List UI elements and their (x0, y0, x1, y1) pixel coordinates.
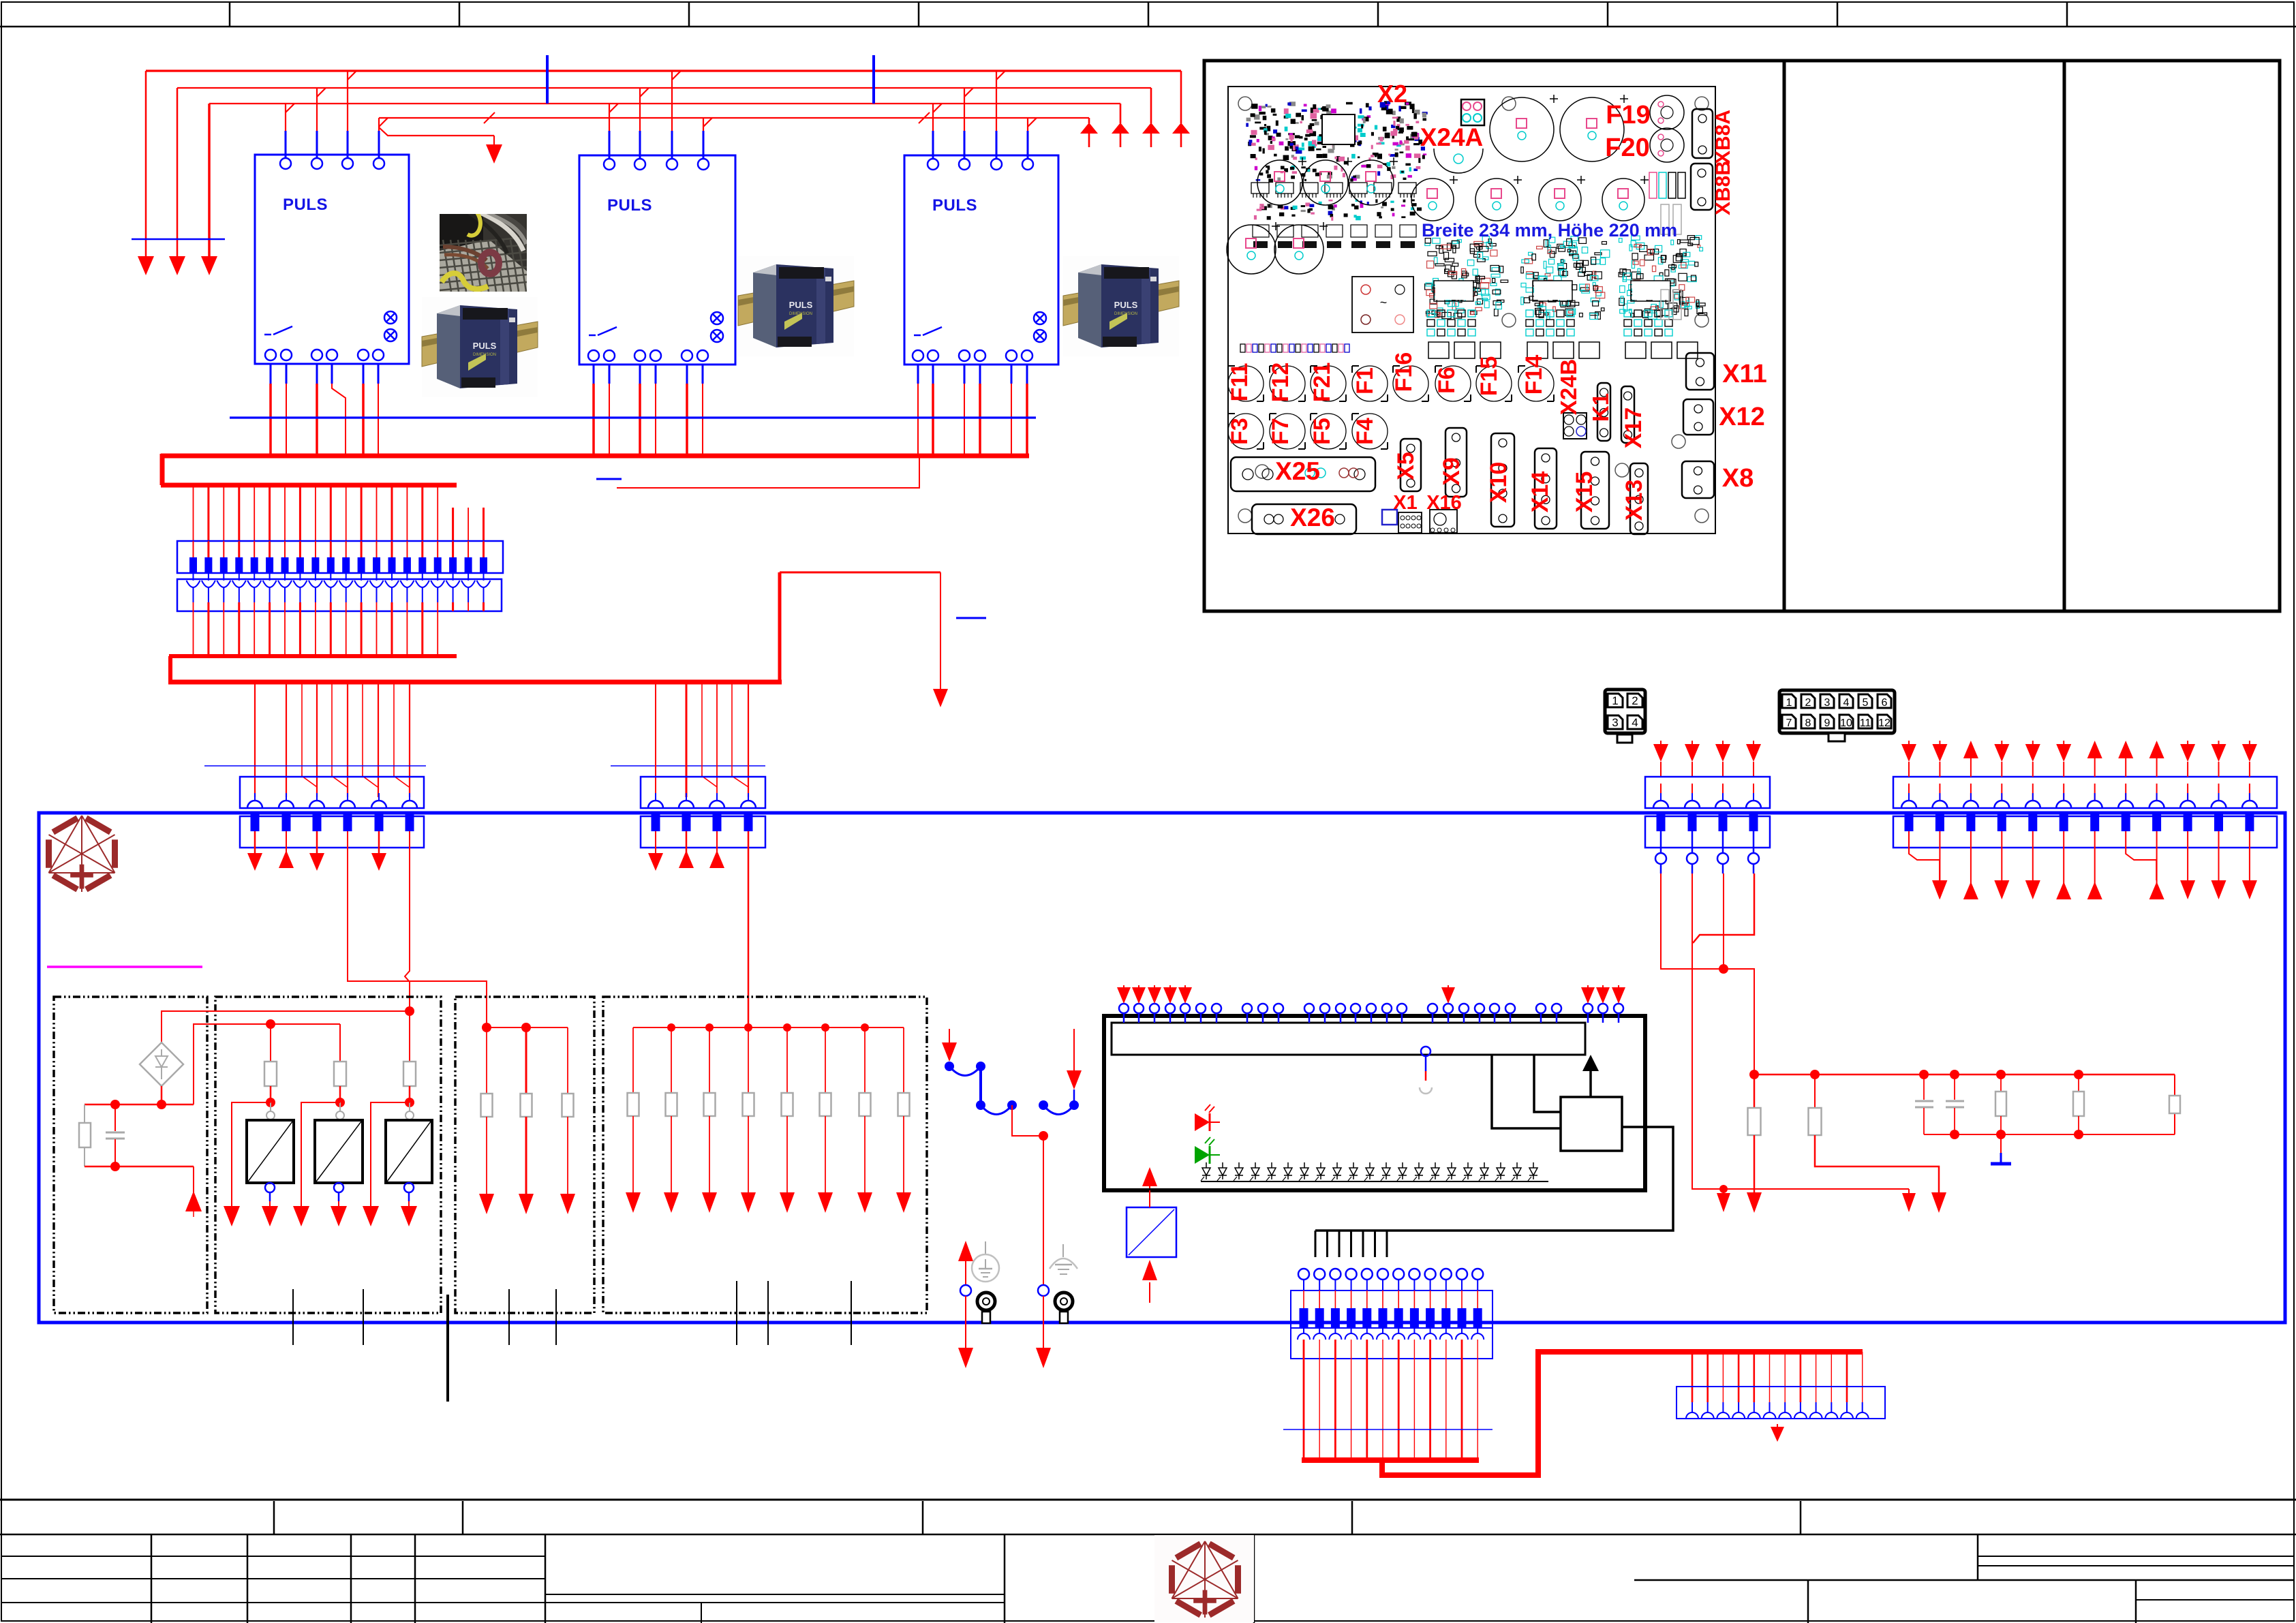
PCB small component rows (1240, 172, 1685, 352)
wires block E to network (1661, 874, 1916, 1212)
arrows into terminal block XF (1901, 741, 2257, 777)
svg-text:2: 2 (1805, 697, 1811, 709)
power supply G2 (PULS) (579, 155, 735, 365)
node 0V blue rail under PSUs (230, 416, 1036, 418)
feed arrow into arc chain (right) (1067, 1029, 1082, 1105)
DC/DC converter U1 (247, 1120, 294, 1183)
terminal block XH (1677, 1387, 1885, 1419)
svg-text:X17: X17 (1621, 407, 1647, 449)
incoming feed arrows (top right) (1080, 71, 1190, 147)
PCB rectifier block (1352, 277, 1413, 333)
fuse F-a (grey) (264, 1062, 277, 1086)
power supply G3 (PULS) (904, 155, 1058, 365)
wire box4 rail (633, 1023, 904, 1032)
wires bus2 to terminal block XC (255, 682, 410, 797)
PCB labels right side (1719, 360, 1767, 493)
svg-text:F14: F14 (1521, 355, 1547, 395)
wire box3 rail (482, 1023, 568, 1032)
PCB connector X24A footprint (1461, 99, 1484, 125)
capacitor C1 (grey) (106, 1104, 125, 1166)
arrows into controller inputs (1117, 985, 1625, 1004)
PCB fuses F19 F20 (round) (1650, 95, 1684, 162)
bus XG collector (thick red route) (1302, 1352, 1863, 1475)
svg-text:F12: F12 (1268, 362, 1294, 403)
svg-text:6: 6 (1882, 697, 1888, 709)
capacitor C-n1 (grey) (1915, 1075, 1933, 1134)
svg-text:XB8B: XB8B (1712, 161, 1734, 215)
svg-text:X10: X10 (1486, 462, 1512, 504)
photo of DIN-rail power supply (2) (738, 256, 854, 356)
hexagon logo (enclosure) (49, 816, 115, 892)
PCB fuse labels row2 (1227, 418, 1378, 445)
thin blue line below XG (1283, 1429, 1493, 1430)
wire box2 feed rail (from XC-6) (194, 1019, 340, 1104)
terminal block XG (bottom, straddling enclosure) (1291, 1269, 1493, 1460)
terminal block XC (240, 777, 424, 848)
svg-text:PULS: PULS (1114, 300, 1138, 310)
resistor R-n2 (grey) (2073, 1075, 2084, 1134)
svg-text:DIMENSION: DIMENSION (473, 353, 496, 357)
wire PE drop to lug 2 (1012, 1105, 1051, 1368)
wires from rails to PSU inputs (286, 71, 1037, 159)
svg-text:3: 3 (1612, 716, 1618, 729)
wire N return thin with blue dash (596, 458, 919, 488)
svg-text:X5: X5 (1393, 452, 1419, 480)
svg-text:F16: F16 (1391, 352, 1417, 392)
option marker magenta line (47, 965, 202, 968)
svg-text:X11: X11 (1722, 360, 1767, 388)
title block (0, 1500, 2296, 1623)
fuse group box3 with arrows (479, 1027, 575, 1214)
wire box1 top rail (162, 1006, 414, 1062)
controller input pins (blue circles) (1119, 1004, 1623, 1023)
svg-text:F1: F1 (1352, 367, 1378, 395)
svg-text:F21: F21 (1309, 362, 1335, 403)
PCB round fuse footprints row2 (1228, 414, 1388, 449)
capacitor C-n2 (grey) (1946, 1075, 1964, 1134)
power supply G1 (PULS) (255, 155, 409, 364)
dashed group box 4 (fuse distribution) (603, 997, 927, 1313)
wires bus to terminal block XH (1692, 1352, 1863, 1412)
controller module A1 (black box) (1104, 1016, 1645, 1190)
resistor R-n3 (grey) (2169, 1096, 2180, 1113)
svg-text:10: 10 (1840, 717, 1852, 729)
isolator blue box (DC/DC) (1127, 1190, 1176, 1257)
PCB big capacitors (1227, 95, 1649, 274)
fuse F-c (grey) (403, 1062, 416, 1086)
svg-text:F4: F4 (1352, 418, 1378, 445)
svg-text:8: 8 (1805, 717, 1811, 729)
connector plug 12-pin (1779, 690, 1895, 741)
svg-text:~: ~ (1380, 296, 1388, 309)
wire crossing ticks on rail4 (484, 112, 930, 123)
svg-text:XB8A: XB8A (1712, 110, 1734, 164)
svg-text:1: 1 (1786, 697, 1792, 709)
svg-text:F19: F19 (1606, 101, 1650, 129)
svg-text:X2: X2 (1377, 80, 1407, 108)
svg-text:F20: F20 (1605, 134, 1649, 162)
svg-text:X1: X1 (1393, 492, 1417, 514)
svg-text:X26: X26 (1290, 504, 1335, 531)
controller test point (1420, 1047, 1432, 1094)
svg-text:X12: X12 (1719, 403, 1765, 431)
page connector blue dashes (top) (547, 55, 874, 104)
svg-text:X16: X16 (1426, 492, 1462, 514)
connector plug 4-pin (1605, 690, 1645, 743)
svg-text:K1: K1 (1588, 393, 1613, 422)
svg-text:X8: X8 (1722, 464, 1754, 493)
diode bridge / suppressor diamond (140, 1042, 183, 1086)
terminal block XD (641, 777, 765, 848)
wire XC-6 to dashed box 2 feed (405, 831, 410, 1011)
bus 24V main (thick red) (161, 454, 1029, 485)
output thyristor row (1201, 1162, 1548, 1181)
svg-text:X14: X14 (1527, 472, 1553, 513)
PCB labels connectors rotated (1393, 359, 1647, 521)
dashed group box 2 (DC/DC converters) (215, 997, 441, 1313)
fuse F-b (grey) (334, 1062, 346, 1086)
wire XC-5 to dashed box 3 feed (348, 831, 487, 1027)
PCB fuse labels row1 (1227, 352, 1547, 403)
svg-text:PULS: PULS (789, 300, 813, 310)
svg-text:PULS: PULS (473, 341, 497, 351)
svg-text:X9: X9 (1439, 457, 1465, 486)
wire distribution rail (right network) (1749, 1070, 2175, 1139)
wire rail4 branch with down arrow (379, 127, 502, 164)
svg-text:X25: X25 (1275, 457, 1320, 485)
converter output terminals and arrows (262, 1183, 417, 1226)
wires bus2 to terminal block XD (656, 682, 748, 797)
svg-text:X13: X13 (1621, 480, 1647, 521)
PCB X24B connector small (1563, 413, 1587, 439)
svg-text:4: 4 (1843, 697, 1850, 709)
thin blue line above XC (204, 765, 426, 767)
svg-text:4: 4 (1632, 716, 1638, 729)
fuse group box4 with arrows (626, 1027, 911, 1213)
thin blue line above XD (611, 765, 765, 767)
fuse network F-n2 with route (1809, 1075, 1947, 1213)
PCB mounting holes (1238, 97, 1709, 523)
PCB round fuse footprints row1 (1228, 366, 1554, 401)
svg-text:F5: F5 (1309, 418, 1335, 445)
wire box1 mid rail (85, 1086, 194, 1109)
wire controller to connector comb (black) (1315, 1127, 1673, 1257)
svg-text:X24A: X24A (1420, 123, 1484, 151)
cable lug 1 (black ring) (977, 1293, 995, 1323)
DC/DC converter U3 (386, 1120, 432, 1183)
svg-text:1: 1 (1612, 694, 1618, 707)
wire riser to supply arrow (780, 572, 986, 707)
ground symbol (blue) under network (1991, 1134, 2011, 1164)
terminal strip X1 (disconnect terminals) (177, 541, 503, 573)
svg-text:F6: F6 (1434, 367, 1460, 394)
terminal block XE (1645, 777, 1770, 874)
documentation frame (black box right) (1204, 61, 2280, 611)
svg-text:Breite 234 mm, Höhe 220 mm: Breite 234 mm, Höhe 220 mm (1422, 220, 1677, 241)
company hexagon logo (title block) (1154, 1535, 1254, 1622)
resistor R1 (grey) (79, 1104, 91, 1166)
arrow up inside controller (left) (1142, 1167, 1157, 1188)
fuse strip F (micro fuses) (177, 573, 502, 611)
wire box1 bottom rail with return arrow (85, 1162, 202, 1217)
wires PSU outputs to 24V bus (271, 364, 1027, 456)
arrows below terminal block XC (247, 831, 386, 871)
svg-text:DIMENSION: DIMENSION (789, 312, 812, 316)
wire link arcs (plug connections) (945, 1062, 1079, 1115)
svg-text:DIMENSION: DIMENSION (1114, 312, 1137, 316)
svg-text:7: 7 (1786, 717, 1792, 729)
wire top supply rails (146, 71, 1181, 118)
cable lug 2 (black ring) (1055, 1293, 1073, 1323)
wire PE with both arrows (lug 1) (958, 1241, 973, 1368)
svg-text:F15: F15 (1476, 356, 1502, 397)
PCB labels X25 X26 X1 X16 (1275, 457, 1462, 531)
dashed group box 3 (fuses) (455, 997, 594, 1313)
svg-text:X15: X15 (1572, 472, 1597, 513)
svg-text:F11: F11 (1227, 363, 1253, 402)
svg-text:2: 2 (1632, 694, 1638, 707)
PCB power stage clusters (1425, 236, 1707, 358)
svg-text:PULS: PULS (607, 196, 652, 215)
photo of cable harness (440, 211, 534, 292)
node N blue dash (riser) (956, 617, 986, 619)
earth symbol (grey circle) (972, 1241, 999, 1282)
arrows into terminal block XE (1653, 741, 1761, 777)
PCB component cluster top-left (1246, 101, 1427, 248)
DC/DC converter U2 (315, 1120, 363, 1183)
branch arrows from converter feeds (224, 1102, 410, 1226)
PCB connectors bottom (1231, 109, 1714, 534)
cabinet enclosure outline (blue) (39, 813, 2285, 1323)
fuse network F-n1 (1747, 1075, 1762, 1213)
photo of DIN-rail power supply (3) (1063, 256, 1179, 356)
wires fuses to converters (266, 1086, 414, 1119)
relay driver block (1492, 1055, 1622, 1151)
svg-text:9: 9 (1824, 717, 1831, 729)
wires bus to terminal strip X (194, 485, 484, 559)
PCB layout drawing (1228, 87, 1715, 534)
arrows below terminal block XF (1909, 831, 2257, 899)
svg-text:F7: F7 (1268, 418, 1294, 445)
bus L+ distribution (thick red, second) (168, 572, 782, 682)
terminal block XF (1893, 777, 2277, 848)
svg-text:5: 5 (1863, 697, 1869, 709)
svg-text:12: 12 (1878, 717, 1891, 729)
svg-text:3: 3 (1824, 697, 1831, 709)
wire left feeder drops with arrows (132, 71, 225, 275)
svg-text:PULS: PULS (932, 196, 977, 215)
arrow up into isolator bottom (1142, 1260, 1157, 1303)
resistor R-n1 (grey) (1995, 1075, 2006, 1134)
svg-text:PULS: PULS (283, 196, 328, 214)
svg-text:X24B: X24B (1556, 359, 1581, 416)
feed arrow into arc chain (left) (942, 1029, 957, 1066)
LED green (1195, 1137, 1220, 1164)
arrows below terminal block XD (648, 831, 724, 871)
arrow below XH (1771, 1424, 1784, 1442)
dashed group box 1 (surge filter) (54, 997, 207, 1313)
wires fuse strip to distribution bus 2 (194, 602, 484, 656)
earth symbol (grey arc) (1050, 1244, 1077, 1274)
LED red (1195, 1104, 1220, 1131)
svg-text:F3: F3 (1227, 418, 1253, 445)
node N short blue bar (left) (132, 238, 225, 241)
svg-text:11: 11 (1860, 717, 1871, 729)
wire XD-4 feed to dashed box 4 (748, 831, 750, 1027)
sheet crossing ticks (black) (293, 1281, 851, 1402)
photo of DIN-rail power supply (1) (422, 297, 538, 397)
